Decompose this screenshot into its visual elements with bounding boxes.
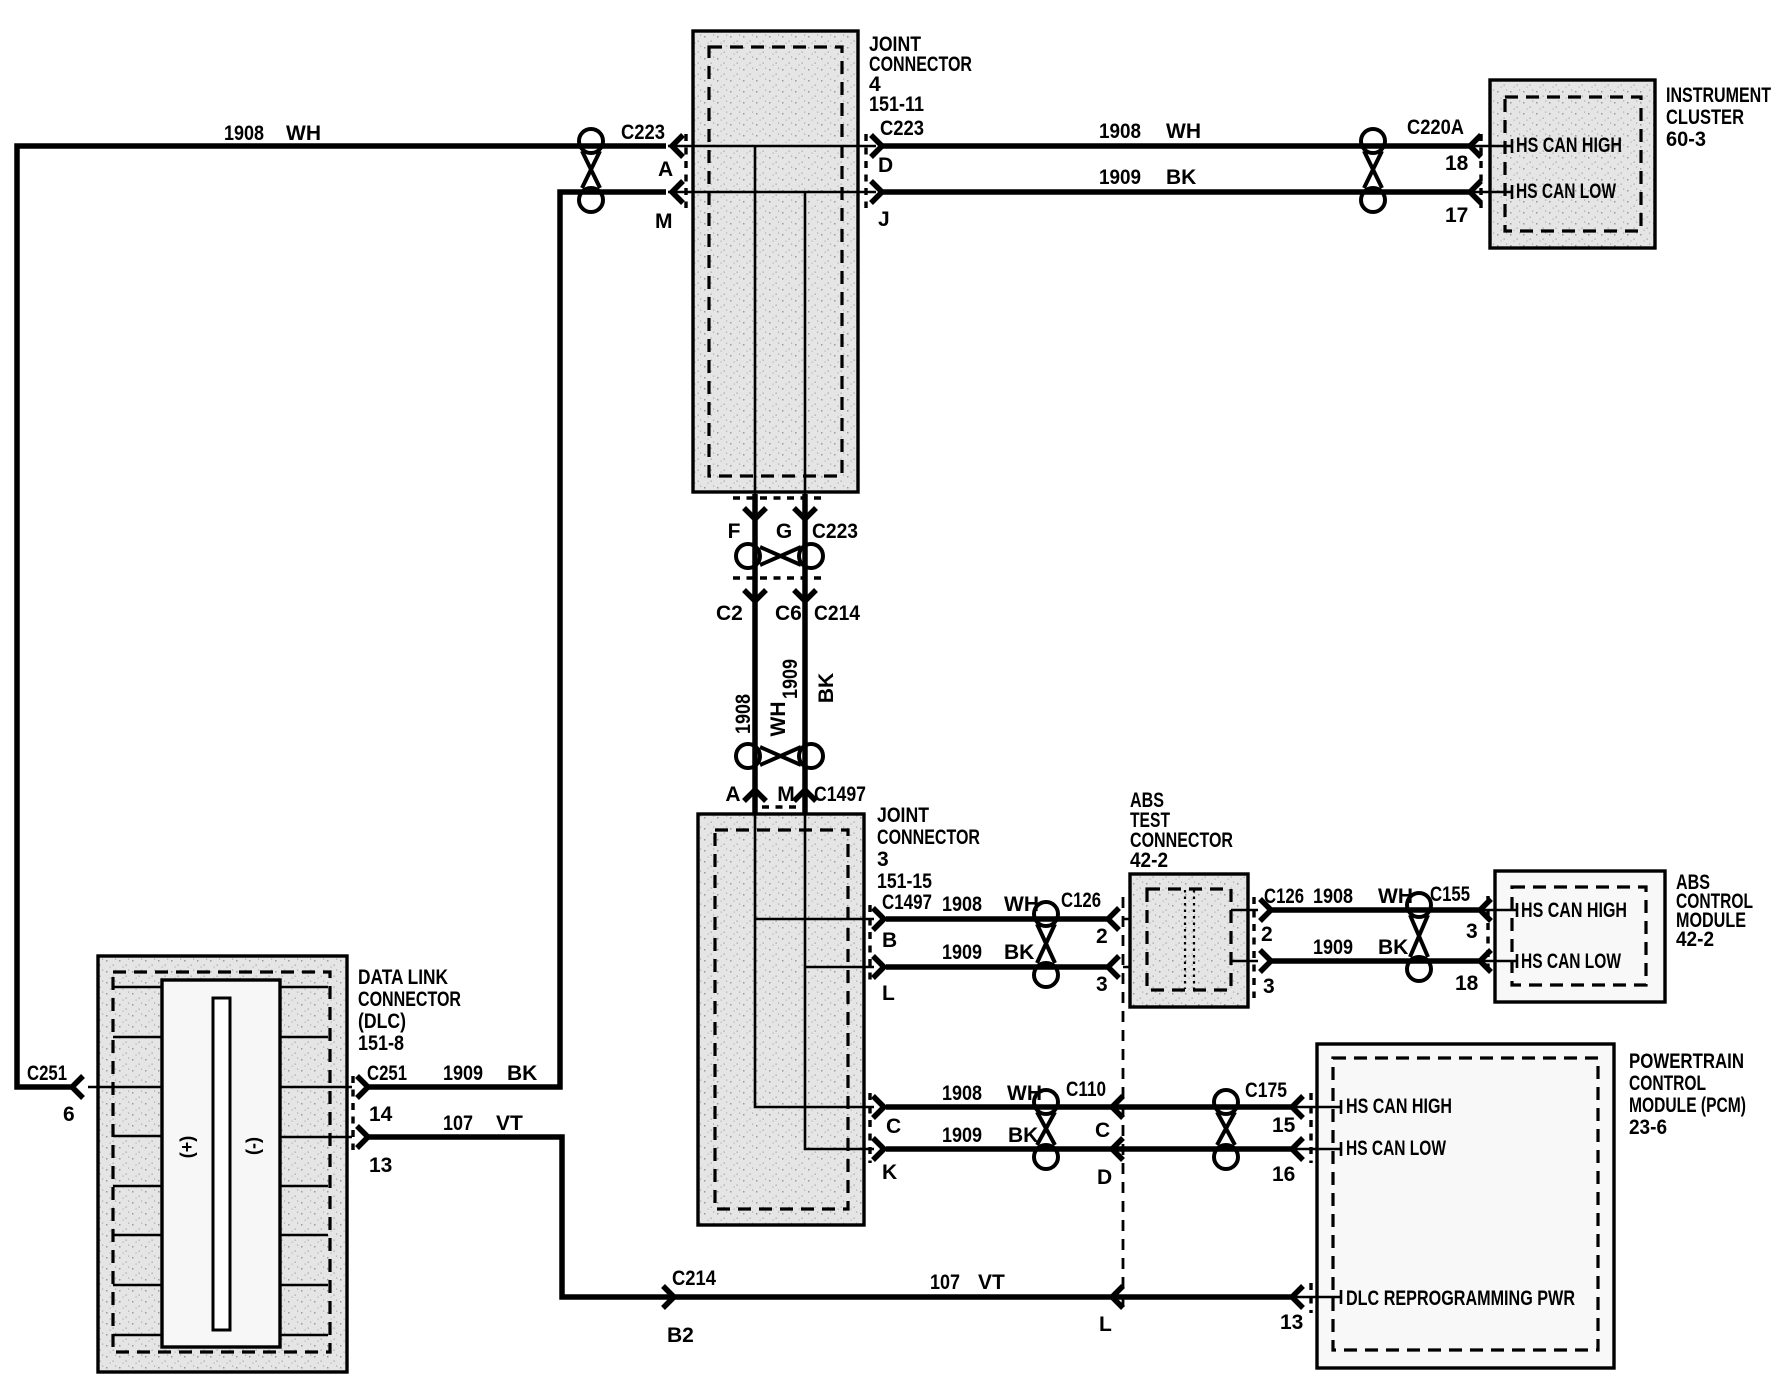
svg-text:(+): (+) [177,1136,197,1159]
arrow into C223 pin M [672,181,683,203]
wire stub HS CAN HIGH cluster [1471,139,1512,153]
arrow into C223 pin A [672,135,683,157]
arrow out C223 pin D [871,135,882,157]
svg-text:K: K [882,1161,897,1184]
label pin L [882,982,895,1005]
wire 1908 WH JC3 to PCM [886,1104,1292,1110]
label ABS TEST CONNECTOR 42-2 [1130,789,1233,872]
svg-text:18: 18 [1455,972,1479,995]
svg-text:151-8: 151-8 [358,1032,404,1055]
svg-text:23-6: 23-6 [1629,1116,1667,1139]
label pin 13 pcm [1280,1311,1303,1334]
svg-text:CONNECTOR: CONNECTOR [358,988,461,1011]
label HS CAN HIGH cluster [1516,134,1622,157]
label DLC REPROGRAMMING PWR [1346,1287,1575,1310]
svg-text:JOINT: JOINT [877,804,929,827]
svg-text:HS CAN HIGH: HS CAN HIGH [1346,1095,1452,1118]
label pin A bottom [725,783,740,806]
wire stub test connector right [1231,910,1258,961]
twisted pair at C155 [1407,893,1431,981]
wire 107 VT DLC to PCM [368,1137,1292,1297]
connector C251 dashes [351,1076,354,1150]
label pin 13 dlc [369,1154,392,1177]
label C214 mid [814,602,860,625]
svg-text:C1497: C1497 [814,783,866,806]
arrow into C1497 pin M [794,790,816,801]
svg-text:C110: C110 [1066,1078,1106,1101]
wire stub HS CAN LOW abs [1481,954,1517,968]
wire JC3 internal vertical A [755,814,874,1107]
svg-text:C6: C6 [775,602,802,625]
svg-text:17: 17 [1445,204,1468,227]
label 1908 WH top-left [224,122,321,145]
svg-text:HS CAN LOW: HS CAN LOW [1516,180,1616,203]
arrow into C2 [744,590,766,601]
label INSTRUMENT CLUSTER 60-3 [1666,84,1771,151]
svg-text:WH: WH [286,122,321,145]
label pin A [658,158,673,181]
label HS CAN HIGH pcm [1346,1095,1452,1118]
svg-text:BK: BK [1378,936,1408,959]
label POWERTRAIN CONTROL MODULE PCM 23-6 [1629,1050,1746,1139]
wire 1909 BK JC3 to PCM [886,1146,1292,1152]
label DLC minus [243,1137,263,1155]
svg-text:151-11: 151-11 [869,93,924,116]
label C6 [775,602,802,625]
label C223 bottom [812,520,858,543]
svg-text:(-): (-) [243,1137,263,1155]
arrow into ABS pin 3 [1480,899,1491,921]
label 1908 WH abs-right [1313,885,1413,908]
svg-text:L: L [1099,1313,1112,1336]
svg-text:1908: 1908 [224,122,264,145]
label C110 [1066,1078,1106,1101]
label pin K [882,1161,897,1184]
svg-text:1909: 1909 [443,1062,483,1085]
arrow out C223 pin G [794,508,816,519]
svg-text:HS CAN HIGH: HS CAN HIGH [1516,134,1622,157]
label JOINT CONNECTOR 3 151-15 [877,804,980,893]
dashed boundary C126 right [1252,897,1255,998]
wire across JC4 pin M-J [668,191,876,194]
arrow into ABS pin 18 [1480,950,1491,972]
svg-text:WH: WH [1166,120,1201,143]
label pin 16 [1272,1163,1295,1186]
wire 1908 WH JC3 to C126 [886,916,1110,922]
label DATA LINK CONNECTOR DLC 151-8 [358,966,461,1055]
joint connector U2 JOINT CONNECTOR 3 151-15 [698,814,864,1225]
DLC pin stubs [113,987,328,1335]
svg-text:L: L [882,982,895,1005]
arrow into PCM pin 16 [1292,1138,1303,1160]
wire JC3 internal pin L [805,966,874,969]
wire 1909 BK to ABS module [1271,958,1479,964]
svg-text:DLC REPROGRAMMING PWR: DLC REPROGRAMMING PWR [1346,1287,1575,1310]
connector C2-C6 dashes [733,576,824,579]
svg-text:16: 16 [1272,1163,1295,1186]
wire 1908 WH to ABS module [1271,907,1479,913]
svg-text:C155: C155 [1430,883,1470,906]
label pin B2 [667,1324,694,1347]
svg-text:1908: 1908 [942,893,982,916]
label DLC plus [177,1136,197,1159]
connector C223 right dashes [864,134,867,208]
label C126 left [1061,889,1101,912]
svg-text:J: J [878,208,890,231]
label C126 right [1264,885,1304,908]
svg-text:C214: C214 [672,1267,716,1290]
arrow into C110 pin D [1112,1138,1123,1160]
label pin M [655,210,673,233]
svg-text:1908: 1908 [1313,885,1353,908]
svg-text:C2: C2 [716,602,743,625]
wire JC3 internal vertical M [805,814,874,1149]
svg-text:HS CAN LOW: HS CAN LOW [1346,1137,1446,1160]
label C155 [1430,883,1470,906]
arrow out C126 pin 3 [1260,950,1271,972]
label pin C left [886,1115,901,1138]
svg-text:BK: BK [507,1062,537,1085]
arrow into cluster pin 17 [1470,181,1481,203]
svg-text:G: G [776,520,792,543]
label 1908 WH abs-left [942,893,1039,916]
label pin G [776,520,792,543]
arrow into PCM pin 13 [1292,1286,1303,1308]
label pin L bottom [1099,1313,1112,1336]
label 1909 rotated [779,659,802,699]
joint connector U1 JOINT CONNECTOR 4 151-11 [693,31,858,492]
svg-text:3: 3 [877,848,889,871]
label 1909 BK dlc [443,1062,537,1085]
label 1909 BK pcm [942,1124,1038,1147]
label ABS pin 3 [1466,920,1478,943]
arrow out DLC pin 14 [357,1076,368,1098]
arrow into C175 pin L [1112,1286,1123,1308]
svg-text:151-15: 151-15 [877,870,932,893]
label 107 VT dlc [443,1112,523,1135]
wire 1908 WH vertical F-A [752,494,758,814]
label pin 6 [63,1103,75,1126]
svg-text:D: D [878,154,893,177]
svg-text:C223: C223 [880,117,924,140]
svg-text:60-3: 60-3 [1666,128,1706,151]
arrow into C1497 pin A [744,790,766,801]
svg-text:C214: C214 [814,602,860,625]
svg-text:F: F [728,520,741,543]
svg-text:C175: C175 [1245,1079,1287,1102]
connector C220A dashes [1479,134,1482,208]
svg-text:A: A [725,783,740,806]
svg-text:3: 3 [1263,975,1275,998]
svg-text:CONNECTOR: CONNECTOR [877,826,980,849]
label 1909 BK abs-right [1313,936,1408,959]
arrow out DLC pin 6 [72,1076,83,1098]
arrow into C126 pin 2 [1108,908,1119,930]
label pin J [878,208,890,231]
module POWERTRAIN CONTROL MODULE PCM 23-6 [1317,1044,1614,1368]
arrow out DLC pin 13 [357,1126,368,1148]
svg-text:A: A [658,158,673,181]
wire stub DLC REPROGRAMMING PWR [1293,1290,1341,1304]
svg-text:1909: 1909 [942,1124,982,1147]
twisted pair at C126 left [1034,902,1058,987]
label C251 left [27,1062,67,1085]
connector C223 bottom dashes [733,496,824,499]
svg-text:C223: C223 [812,520,858,543]
label pin M bottom [777,783,795,806]
label C126 pin 2 left [1096,925,1108,948]
label HS CAN LOW abs [1521,950,1621,973]
arrow out C223 pin F [744,508,766,519]
label C126 pin 2 right [1261,923,1273,946]
svg-text:M: M [655,210,673,233]
svg-text:C126: C126 [1061,889,1101,912]
connector C1497 dashes [762,805,806,808]
svg-text:C: C [886,1115,901,1138]
svg-text:3: 3 [1096,973,1108,996]
label C223 left [621,121,665,144]
label C1497 top [814,783,866,806]
label 1908 WH pcm [942,1082,1042,1105]
svg-text:CONTROL: CONTROL [1629,1072,1706,1095]
label C223 right [880,117,924,140]
svg-text:2: 2 [1261,923,1273,946]
label pin C right [1095,1119,1110,1142]
svg-text:C251: C251 [27,1062,67,1085]
label 1908 WH right [1099,120,1201,143]
label C126 pin 3 left [1096,973,1108,996]
label 107 VT bottom [930,1271,1005,1294]
svg-text:HS CAN HIGH: HS CAN HIGH [1521,899,1627,922]
arrow out C126 pin 2 [1260,899,1271,921]
wire 1909 BK vertical G-M [802,494,808,814]
wire 1908 WH from C223-A to DLC pin6 [17,146,666,1087]
wire stub HS CAN HIGH abs [1481,903,1517,917]
label 1909 BK right [1099,166,1196,189]
dashed boundary C126 [1122,897,1125,1312]
twisted pair above C1497 [736,744,823,768]
svg-text:1909: 1909 [779,659,802,699]
arrow out C1497 pin K [873,1138,884,1160]
DLC connector body [162,980,280,1347]
svg-text:CONNECTOR: CONNECTOR [869,53,972,76]
label BK rotated [815,673,838,703]
svg-text:1908: 1908 [732,694,755,734]
twisted pair at C175 [1214,1090,1238,1169]
wire stub HS CAN LOW pcm [1293,1142,1341,1156]
label C1497 right [882,891,932,914]
svg-text:1909: 1909 [1099,166,1141,189]
label pin D right [1097,1166,1112,1189]
connector ABS TEST CONNECTOR 42-2 [1130,874,1248,1007]
module ABS CONTROL MODULE 42-2 [1495,871,1665,1002]
wire stub HS CAN HIGH pcm [1293,1100,1341,1114]
twisted pair at C220A [1361,129,1385,212]
svg-text:D: D [1097,1166,1112,1189]
svg-text:1909: 1909 [1313,936,1353,959]
label HS CAN LOW cluster [1516,180,1616,203]
wire DLC pin14 stub [280,1086,352,1089]
label pin 14 [369,1103,393,1126]
svg-text:POWERTRAIN: POWERTRAIN [1629,1050,1744,1073]
label 1908 rotated [732,694,755,734]
svg-text:C126: C126 [1264,885,1304,908]
arrow out C1497 pin C [873,1096,884,1118]
svg-text:42-2: 42-2 [1676,928,1714,951]
label ABS CONTROL MODULE 42-2 [1676,871,1753,951]
wire stub HS CAN LOW cluster [1471,185,1512,199]
wire JC4 internal vertical J-G [804,192,807,494]
label pin D [878,154,893,177]
wire 1909 BK JC3 to C126 [886,964,1110,970]
svg-text:107: 107 [930,1271,960,1294]
svg-text:B: B [882,929,897,952]
arrow into PCM pin 15 [1292,1096,1303,1118]
svg-text:2: 2 [1096,925,1108,948]
connector C175 dashes [1309,1093,1312,1313]
arrow out C1497 pin L [873,956,884,978]
svg-text:42-2: 42-2 [1130,849,1168,872]
wire stub C126 to test connector [1123,919,1150,967]
svg-text:WH: WH [767,702,790,737]
svg-text:107: 107 [443,1112,473,1135]
svg-text:C1497: C1497 [882,891,932,914]
svg-text:M: M [777,783,795,806]
connector C223 left dashes [684,134,687,208]
svg-text:C220A: C220A [1407,116,1464,139]
arrow out C1497 pin B [873,908,884,930]
svg-text:HS CAN LOW: HS CAN LOW [1521,950,1621,973]
svg-text:C251: C251 [367,1062,407,1085]
svg-text:14: 14 [369,1103,393,1126]
label C175 [1245,1079,1287,1102]
label pin 15 [1272,1114,1296,1137]
wire DLC pin6 stub [88,1086,162,1089]
label pin B [882,929,897,952]
svg-text:BK: BK [1004,941,1034,964]
svg-text:1908: 1908 [942,1082,982,1105]
wire 1908 WH JC4 to cluster [882,143,1469,149]
label C251 right [367,1062,407,1085]
svg-text:C: C [1095,1119,1110,1142]
svg-text:1908: 1908 [1099,120,1141,143]
svg-text:VT: VT [978,1271,1005,1294]
twisted pair below C223 [736,544,823,568]
arrow out C223 pin J [871,181,882,203]
svg-text:3: 3 [1466,920,1478,943]
module INSTRUMENT CLUSTER 60-3 [1490,80,1655,248]
svg-text:18: 18 [1445,152,1469,175]
svg-text:BK: BK [1166,166,1196,189]
svg-text:15: 15 [1272,1114,1296,1137]
label pin 18 [1445,152,1469,175]
svg-text:1909: 1909 [942,941,982,964]
label pin 17 [1445,204,1468,227]
svg-text:C223: C223 [621,121,665,144]
svg-text:6: 6 [63,1103,75,1126]
connector C155 dashes [1486,896,1489,975]
label HS CAN HIGH abs [1521,899,1627,922]
arrow through C214 pin B2 [663,1286,674,1308]
svg-text:BK: BK [815,673,838,703]
connector C1497 right dashes [868,905,871,1163]
wire 1909 BK from C223-M to DLC pin14 [368,192,666,1087]
label JOINT CONNECTOR 4 151-11 [869,33,972,116]
arrow into C110 pin C [1112,1096,1123,1118]
twisted pair at C110 [1034,1090,1058,1169]
svg-text:VT: VT [496,1112,523,1135]
arrow into C126 pin 3 [1108,956,1119,978]
wire 1909 BK JC4 to cluster [882,189,1469,195]
label C220A [1407,116,1464,139]
label C126 pin 3 right [1263,975,1275,998]
arrow into C6 [794,590,816,601]
svg-text:BK: BK [1008,1124,1038,1147]
svg-text:INSTRUMENT: INSTRUMENT [1666,84,1771,107]
svg-text:13: 13 [1280,1311,1303,1334]
wire JC3 internal pin B [755,918,874,921]
label C2 [716,602,743,625]
label 1909 BK abs-left [942,941,1034,964]
wire across JC4 pin A-D [668,145,876,148]
connector DATA LINK CONNECTOR DLC 151-8 [98,956,347,1372]
svg-text:13: 13 [369,1154,392,1177]
label pin F [728,520,741,543]
label C214 bottom [672,1267,716,1290]
label HS CAN LOW pcm [1346,1137,1446,1160]
svg-text:MODULE (PCM): MODULE (PCM) [1629,1094,1746,1117]
svg-text:(DLC): (DLC) [358,1010,406,1033]
wire DLC pin13 stub [280,1136,352,1139]
wire JC4 internal vertical A-F [754,146,757,494]
arrow into cluster pin 18 [1470,135,1481,157]
label WH rotated [767,702,790,737]
svg-text:CLUSTER: CLUSTER [1666,106,1744,129]
label ABS pin 18 [1455,972,1479,995]
svg-text:DATA LINK: DATA LINK [358,966,448,989]
twisted pair at C223 left [579,129,603,212]
svg-text:B2: B2 [667,1324,694,1347]
